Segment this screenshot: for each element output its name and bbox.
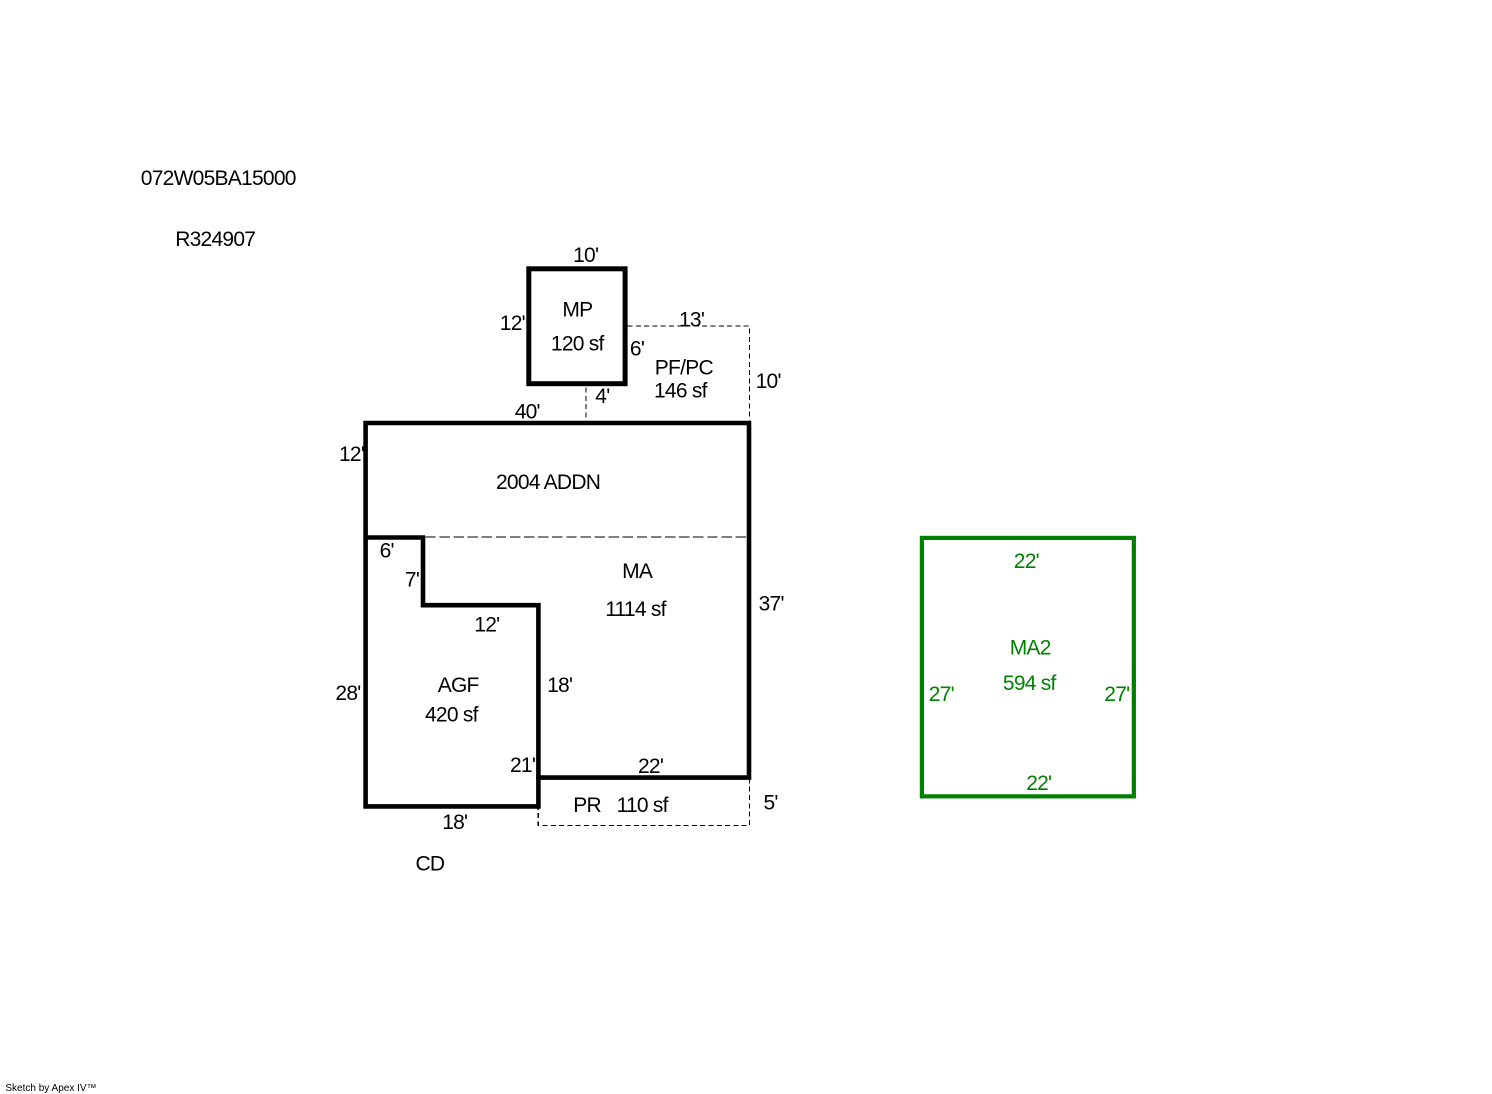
svg-text:110 sf: 110 sf <box>617 794 669 817</box>
svg-text:6': 6' <box>380 540 394 563</box>
svg-text:27': 27' <box>1104 683 1129 706</box>
svg-text:18': 18' <box>547 674 572 697</box>
svg-text:072W05BA15000: 072W05BA15000 <box>141 167 296 190</box>
svg-text:MP: MP <box>562 299 592 322</box>
svg-text:10': 10' <box>756 370 781 393</box>
svg-text:PR: PR <box>573 794 601 817</box>
svg-text:146 sf: 146 sf <box>654 380 708 403</box>
svg-text:27': 27' <box>929 683 954 706</box>
svg-text:R324907: R324907 <box>175 228 255 251</box>
svg-text:22': 22' <box>1014 550 1039 573</box>
MA2 green rectangle <box>922 538 1134 796</box>
svg-text:MA2: MA2 <box>1010 637 1051 660</box>
AGF step walls <box>366 538 539 780</box>
main building outline <box>366 423 749 806</box>
svg-text:18': 18' <box>442 811 467 834</box>
svg-text:PF/PC: PF/PC <box>655 357 714 380</box>
svg-text:37': 37' <box>759 593 784 616</box>
svg-text:4': 4' <box>595 385 609 408</box>
svg-text:AGF: AGF <box>438 674 479 697</box>
svg-text:10': 10' <box>573 244 598 267</box>
svg-text:12': 12' <box>474 614 499 637</box>
svg-text:594 sf: 594 sf <box>1003 672 1057 695</box>
svg-text:120 sf: 120 sf <box>551 333 605 356</box>
ADDN/MA dashed separator <box>425 536 746 538</box>
svg-text:7': 7' <box>405 569 419 592</box>
4ft dashed tick <box>585 388 587 421</box>
svg-text:12': 12' <box>500 312 525 335</box>
svg-text:Sketch by Apex IV™: Sketch by Apex IV™ <box>5 1083 96 1094</box>
svg-text:MA: MA <box>622 560 653 583</box>
svg-text:2004 ADDN: 2004 ADDN <box>496 471 600 494</box>
svg-text:1114 sf: 1114 sf <box>605 598 666 621</box>
svg-text:5': 5' <box>764 791 778 814</box>
MP building rectangle <box>529 269 625 384</box>
svg-text:40': 40' <box>515 401 540 424</box>
PF/PC dashed outline <box>628 326 750 421</box>
svg-text:13': 13' <box>679 309 704 332</box>
svg-text:6': 6' <box>630 337 644 360</box>
svg-text:12': 12' <box>339 443 364 466</box>
svg-text:420 sf: 420 sf <box>425 704 479 727</box>
PR dashed outline <box>538 780 749 826</box>
svg-text:22': 22' <box>638 755 663 778</box>
svg-text:21': 21' <box>510 754 535 777</box>
svg-text:28': 28' <box>335 682 360 705</box>
svg-text:CD: CD <box>416 852 445 875</box>
svg-text:22': 22' <box>1026 772 1051 795</box>
